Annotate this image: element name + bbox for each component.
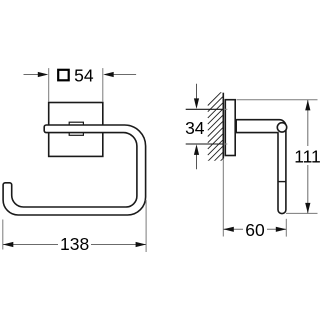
54 arrowheads: [38, 72, 114, 77]
wall plate (side): [225, 100, 235, 156]
138 dimension line: [3, 244, 146, 246]
cross line on rod: [278, 181, 286, 183]
111 dimension line: [307, 100, 309, 213]
extension lines for 54 dim: [49, 68, 103, 101]
svg-text:60: 60: [245, 220, 265, 240]
138 arrowheads: [3, 242, 146, 247]
text 111 (on white): [293, 146, 320, 165]
holder arm + down rod (side view): [236, 120, 286, 214]
paper holder bar (front view): [3, 125, 146, 215]
mounting tab behind bar: [69, 122, 83, 135]
34 arrows (outside, pointing inward): [196, 84, 198, 170]
svg-text:111: 111: [294, 146, 320, 166]
60 dimension line: [223, 228, 286, 230]
54 dimension line tails: [24, 74, 137, 76]
svg-text:138: 138: [60, 234, 89, 254]
svg-text:54: 54: [74, 66, 94, 86]
111 arrowheads: [305, 100, 310, 213]
34 ext dashes over plate: [224, 109, 229, 144]
extension lines for 138 dim: [3, 200, 146, 252]
square symbol: [58, 70, 68, 81]
60 extension lines: [223, 159, 286, 237]
pivot circle at arm end: [277, 123, 286, 132]
wall hatching: [208, 90, 224, 180]
111 extension lines: [237, 100, 318, 214]
34 extension lines: [186, 109, 224, 144]
wall plate (front): [49, 103, 103, 157]
svg-text:34: 34: [185, 118, 205, 138]
wall line: [222, 93, 224, 159]
60 arrowheads: [223, 227, 286, 232]
